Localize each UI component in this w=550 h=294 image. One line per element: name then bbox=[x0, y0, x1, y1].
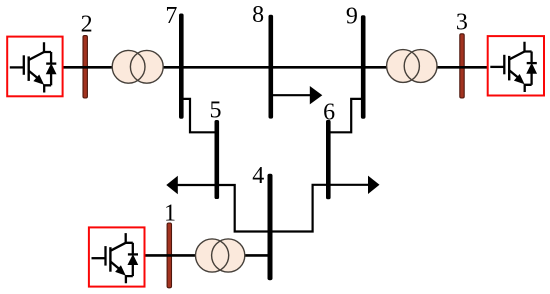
load arrow stem at bus 8 bbox=[271, 94, 311, 96]
wire: bottom line converter 1 box to bus 4 bbox=[145, 254, 271, 257]
load arrowhead at bus 6 bbox=[368, 176, 380, 194]
load arrow stem at bus 6 bbox=[328, 184, 369, 186]
transformer T2 (bus9-bus3) bbox=[387, 50, 437, 83]
bus 6 busbar bbox=[326, 120, 331, 199]
wire: bus 5 to bus 4 riser bbox=[217, 185, 270, 232]
svg-text:1: 1 bbox=[164, 201, 176, 227]
load arrowhead at bus 8 bbox=[310, 86, 323, 104]
svg-text:3: 3 bbox=[456, 10, 468, 36]
wire: bus 4 to bus 6 riser bbox=[270, 185, 328, 232]
transformer T3 (bus1-bus4) bbox=[196, 239, 245, 272]
bus 4 busbar bbox=[268, 174, 273, 281]
load arrowhead at bus 5 bbox=[166, 176, 178, 194]
svg-text:4: 4 bbox=[252, 163, 264, 189]
svg-text:9: 9 bbox=[346, 3, 358, 29]
svg-text:6: 6 bbox=[323, 99, 335, 125]
svg-text:8: 8 bbox=[252, 2, 264, 28]
bus 1 busbar (maroon) bbox=[167, 223, 171, 288]
svg-text:5: 5 bbox=[210, 98, 222, 124]
converter 3 IGBT symbol bbox=[490, 42, 536, 92]
bus 2 busbar (maroon) bbox=[83, 36, 87, 98]
bus 9 busbar bbox=[361, 15, 366, 118]
bus 5 busbar bbox=[215, 120, 220, 199]
wire: bus 7 to bus 5 bbox=[181, 99, 217, 132]
wire: bus 9 to bus 6 bbox=[328, 99, 363, 132]
converter 1 red box bbox=[89, 227, 145, 286]
transformer T1 (bus2-bus7) bbox=[112, 50, 163, 83]
bus 8 busbar bbox=[269, 15, 274, 119]
converter 2 red box bbox=[7, 37, 62, 97]
converter 3 red box bbox=[488, 36, 544, 95]
converter 1 IGBT symbol bbox=[92, 233, 139, 283]
wire: main top line from converter 2 box to converter 3 box bbox=[63, 66, 488, 69]
svg-text:7: 7 bbox=[165, 3, 177, 29]
converter 2 IGBT symbol bbox=[10, 42, 57, 92]
bus 7 busbar bbox=[179, 14, 184, 119]
load arrow stem at bus 5 bbox=[177, 184, 217, 186]
svg-text:2: 2 bbox=[81, 11, 93, 37]
bus 3 busbar (maroon) bbox=[460, 34, 464, 98]
